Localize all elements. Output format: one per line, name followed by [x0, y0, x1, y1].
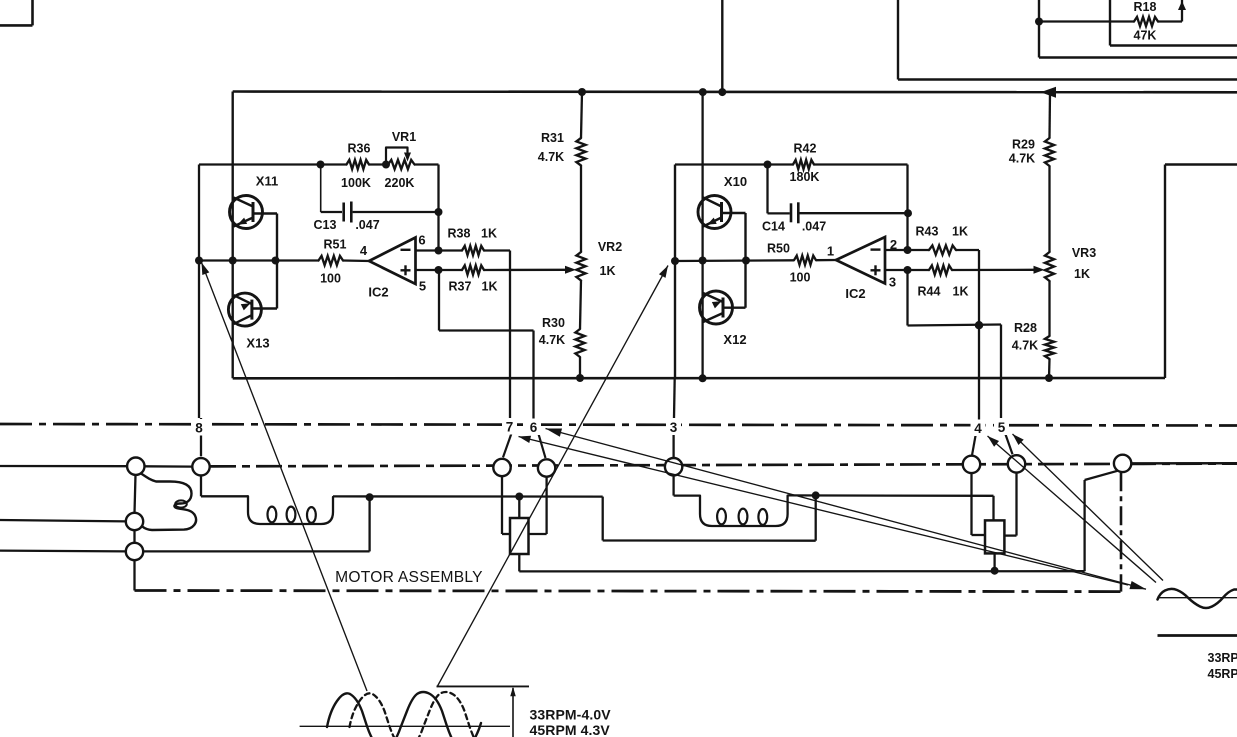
connector pin 6 label: [526, 419, 541, 436]
waveform baseline axis: [300, 725, 510, 727]
svg-text:R38: R38: [448, 227, 471, 241]
amplitude measure arrow: [512, 688, 514, 737]
svg-text:3: 3: [670, 420, 678, 435]
node R36 left / C13 branch: [317, 161, 325, 169]
motor pickup head (hook shape): [140, 473, 197, 531]
svg-text:100K: 100K: [341, 176, 371, 190]
junction arrow at bus / R29 column: [1041, 87, 1057, 98]
resistor R43: [929, 245, 956, 254]
connector 6 circle: [538, 459, 555, 476]
potentiometer VR2: [576, 252, 585, 281]
resistor R29: [1048, 92, 1051, 138]
svg-text:7: 7: [506, 420, 514, 435]
node R30 / bottom bus: [576, 374, 584, 382]
svg-text:.047: .047: [802, 220, 826, 234]
dash-dot motor assembly right boundary: [1120, 472, 1123, 591]
wire collector rail X11-X13: [276, 214, 278, 309]
wire VR1 right to feedback column: [437, 165, 439, 251]
callout arrow to node A: [202, 263, 368, 692]
wire pin 5 to R37: [416, 269, 463, 271]
node collector rail / center line (right): [742, 257, 750, 265]
resistor R50: [794, 256, 816, 265]
connector pin 8 label: [192, 419, 207, 436]
node collector rail / center line: [272, 257, 280, 265]
svg-text:5: 5: [998, 420, 1006, 435]
wire connector 7 link: [503, 433, 512, 457]
callout arrow to connector 7: [519, 437, 1129, 586]
svg-text:R50: R50: [767, 241, 790, 255]
wire connector 5 circle drop: [1015, 473, 1017, 536]
junction bus / transistor rail X10-X12: [699, 88, 707, 96]
svg-text:C13: C13: [314, 218, 337, 232]
wire pin 5 down to connector 6: [438, 270, 440, 331]
resistor R18: [1039, 20, 1134, 22]
node R42 left / C14 branch: [764, 161, 772, 169]
wire from top edge down to supply bus: [721, 0, 723, 92]
junction bus / top feed wire: [718, 88, 726, 96]
transistor X12: [700, 291, 733, 324]
wire far-right block outline: [1165, 163, 1237, 165]
wire pin 3 down to connector 5: [906, 270, 908, 326]
svg-text:3: 3: [889, 275, 896, 290]
connector 3 circle: [665, 458, 682, 475]
svg-text:4: 4: [360, 243, 368, 258]
node pin 3: [904, 266, 912, 274]
terminal circle left 3: [126, 543, 143, 560]
resistor R30: [575, 329, 584, 357]
svg-text:R37: R37: [449, 280, 472, 294]
wire top of left block: [199, 163, 321, 165]
wire pin 3 to R44: [885, 269, 929, 271]
wire common return line: [519, 570, 1084, 573]
svg-text:4.7K: 4.7K: [1009, 152, 1035, 166]
dash-dot connector circle line: [210, 464, 1237, 467]
wire connector 8 drop: [200, 418, 202, 456]
wire return to output terminal: [1083, 480, 1085, 571]
svg-text:R18: R18: [1134, 0, 1157, 14]
wire left block enclosure left edge: [231, 92, 233, 379]
svg-text:R30: R30: [542, 316, 565, 330]
node winding tap junction: [366, 493, 374, 501]
svg-text:33RPM-4.0V: 33RPM-4.0V: [530, 707, 612, 723]
node sensor R top junction: [515, 493, 523, 501]
wire R38 down to connector 7: [509, 251, 511, 419]
wire from bottom-left terminal to winding tap: [144, 550, 370, 552]
wire sensor top lead: [518, 497, 520, 519]
dash-dot connector pin line: [0, 424, 1237, 426]
wire solid segment right of output terminal: [1132, 462, 1237, 465]
svg-text:R51: R51: [324, 238, 347, 252]
wire link to winding 2 output: [602, 497, 604, 541]
resistor R44: [929, 265, 952, 274]
svg-text:IC2: IC2: [368, 285, 388, 300]
small waveform axis (right): [1158, 597, 1237, 599]
sensor element (right rectangle): [985, 520, 1004, 553]
svg-text:1K: 1K: [952, 225, 968, 239]
wire winding 2 output line: [788, 494, 994, 497]
wire connector 5 link: [1005, 433, 1013, 454]
wire pin 6 to R38: [416, 249, 463, 251]
capacitor C13: [320, 166, 322, 212]
waveform solid sine trace: [327, 692, 481, 737]
svg-text:VR1: VR1: [392, 130, 416, 144]
svg-text:R43: R43: [916, 225, 939, 239]
wire connector 3 to winding 2: [672, 476, 674, 496]
callout arrow to node B: [437, 266, 668, 688]
transistor X10: [698, 196, 731, 229]
svg-text:IC2: IC2: [845, 286, 865, 301]
connector 4 circle: [963, 456, 980, 473]
potentiometer VR3: [1045, 252, 1054, 281]
wire collector rail X10-X12: [744, 213, 746, 308]
wire connector 3 link: [672, 435, 674, 458]
wire bottom bus: [233, 377, 1165, 380]
node C14 / feedback column: [904, 209, 912, 217]
wire stub from left edge (middle): [0, 520, 126, 521]
svg-text:47K: 47K: [1134, 29, 1157, 43]
wire connector 6 link: [539, 434, 546, 458]
svg-text:220K: 220K: [385, 176, 415, 190]
svg-text:X12: X12: [723, 332, 746, 347]
svg-text:R36: R36: [348, 142, 371, 156]
wire center node line to op-amp: [199, 259, 319, 261]
resistor R28: [1045, 336, 1054, 359]
node rail / center line: [699, 257, 707, 265]
node winding 2 output junction: [812, 491, 820, 499]
svg-text:4.7K: 4.7K: [1012, 339, 1038, 353]
node junction at R18 left: [1035, 18, 1043, 26]
connector pin 3 label: [666, 419, 681, 436]
peak reference line: [437, 685, 530, 687]
svg-text:R31: R31: [541, 131, 564, 145]
svg-text:.047: .047: [355, 218, 379, 232]
node sensor 2 / return line: [991, 567, 999, 575]
svg-text:4.7K: 4.7K: [539, 333, 565, 347]
wire R18 feed from top, corner to right edge: [1038, 0, 1040, 58]
wire connector 6 circle drop: [545, 477, 547, 534]
callout arrow to connector 5: [1013, 434, 1164, 581]
wire stub from left edge (top): [0, 465, 127, 468]
separator rule below small waveform: [1158, 634, 1237, 637]
connector 8 circle: [192, 458, 209, 475]
wire sensor bottom lead: [518, 554, 520, 571]
resistor R37: [462, 265, 484, 274]
svg-text:45RPM: 45RPM: [1208, 667, 1237, 681]
svg-text:6: 6: [418, 233, 425, 248]
svg-text:1: 1: [827, 244, 834, 259]
svg-text:1K: 1K: [482, 280, 498, 294]
svg-text:VR3: VR3: [1072, 246, 1096, 260]
capacitor C14: [766, 165, 768, 214]
inductor winding L2: [700, 496, 788, 526]
wire R43 down to connector 4: [978, 250, 980, 420]
small waveform sine trace: [1158, 589, 1237, 608]
svg-text:MOTOR ASSEMBLY: MOTOR ASSEMBLY: [335, 569, 483, 586]
resistor R51: [319, 256, 344, 265]
wire top of right block: [675, 163, 768, 165]
junction crossing node: [975, 321, 983, 329]
wire connector 4 link: [972, 433, 976, 455]
node C13 / feedback column: [435, 208, 443, 216]
inductor winding L1: [248, 496, 333, 524]
connector pin 4 label: [971, 420, 986, 437]
node R36 / VR1 junction: [382, 161, 390, 169]
svg-text:R44: R44: [918, 285, 941, 299]
dash-dot motor assembly bottom boundary: [135, 591, 1122, 592]
svg-text:X11: X11: [256, 174, 278, 189]
wire sensor 2 top lead: [992, 496, 994, 521]
svg-text:100: 100: [320, 272, 341, 286]
wire connector 8 to winding 1: [200, 476, 202, 497]
interconnect box corner (top-left): [0, 24, 33, 27]
wire sensor 2 bottom lead: [993, 553, 995, 570]
svg-text:R28: R28: [1014, 321, 1037, 335]
svg-text:180K: 180K: [790, 170, 820, 184]
connector 7 circle: [493, 459, 510, 476]
wire pin 2 to R43: [885, 249, 929, 251]
svg-text:R42: R42: [794, 141, 817, 155]
svg-text:45RPM 4.3V: 45RPM 4.3V: [530, 722, 611, 737]
potentiometer VR1: [388, 160, 415, 169]
transistor X13: [228, 293, 261, 326]
terminal circle left 2: [126, 513, 143, 530]
transistor X11: [230, 196, 263, 229]
op-amp IC2 (left half): [369, 238, 416, 285]
svg-text:1K: 1K: [481, 227, 497, 241]
wire center node line to op-amp (right): [675, 259, 794, 262]
svg-text:1K: 1K: [1074, 267, 1090, 281]
callout arrow to connector 4: [988, 436, 1157, 583]
resistor R42: [793, 160, 814, 169]
svg-text:X10: X10: [724, 174, 747, 189]
node pin 2 / feedback: [904, 246, 912, 254]
wire linking left terminals: [144, 465, 192, 468]
wire right block left edge + drop to connector 3: [674, 165, 676, 379]
output terminal circle (right): [1114, 455, 1131, 472]
wire stub from left edge (bottom): [0, 549, 126, 552]
svg-text:1K: 1K: [953, 285, 969, 299]
wire from top edge, corner to right edge: [897, 0, 899, 80]
svg-text:4.7K: 4.7K: [538, 150, 564, 164]
connector 5 circle: [1008, 455, 1025, 472]
wire R42 right to feedback column: [906, 165, 908, 251]
wire winding 1 output line: [333, 495, 603, 498]
node R28 / bottom bus: [1045, 374, 1053, 382]
op-amp IC2 (right half): [836, 237, 885, 284]
svg-text:4: 4: [974, 421, 982, 436]
svg-text:1K: 1K: [600, 264, 616, 278]
svg-text:R29: R29: [1012, 138, 1035, 152]
svg-text:6: 6: [530, 420, 538, 435]
node A (waveform callout target, left): [195, 257, 203, 265]
svg-text:VR2: VR2: [598, 240, 622, 254]
wire lower edge of R18 loop: [1109, 0, 1111, 46]
wire node column to connector 8: [198, 165, 200, 419]
arrow to VR3 wiper: [1034, 266, 1045, 274]
svg-text:33RPM: 33RPM: [1208, 651, 1237, 665]
svg-text:X13: X13: [246, 336, 269, 351]
node rail / bottom bus: [699, 374, 707, 382]
wire left terminal column: [135, 475, 136, 513]
wire transistor rail from bus to bottom bus: [701, 92, 703, 378]
node pin 5: [435, 266, 443, 274]
node pin 6 / feedback: [435, 247, 443, 255]
resistor R31: [581, 92, 582, 138]
svg-text:5: 5: [419, 279, 426, 294]
svg-text:C14: C14: [762, 220, 785, 234]
arrow to VR2 wiper: [565, 266, 576, 274]
svg-text:100: 100: [790, 270, 811, 284]
connector pin 5 label: [994, 419, 1009, 436]
resistor R38: [462, 246, 484, 255]
terminal circle left 1: [127, 458, 144, 475]
wire main horizontal bus: [233, 90, 1237, 93]
node box edge / center line: [229, 257, 237, 265]
resistor R36: [347, 160, 370, 169]
svg-text:8: 8: [195, 421, 203, 436]
wire connector 7 circle drop: [501, 476, 503, 534]
sensor element (left rectangle): [510, 518, 529, 554]
node B (waveform callout target, right): [671, 257, 679, 265]
waveform dashed sine trace: [350, 692, 492, 737]
junction bus / R31 column: [578, 88, 586, 96]
wire connector 4 circle drop: [970, 473, 972, 535]
callout arrow to connector 6: [546, 429, 1147, 590]
connector pin 7 label: [502, 418, 517, 435]
